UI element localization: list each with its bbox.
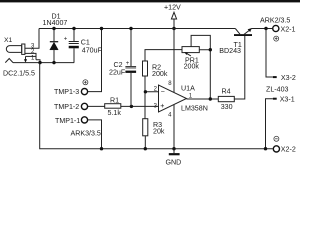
svg-text:+: + <box>64 36 68 42</box>
resistor R3 20k <box>143 119 165 136</box>
connector TMP1-3 <box>54 88 88 96</box>
wire R2 top to PR1 left <box>145 50 182 61</box>
wire PR1 wiper loop <box>191 35 210 49</box>
svg-text:X2-2: X2-2 <box>281 146 296 154</box>
wire R4 to T1 base <box>234 36 245 99</box>
potentiometer PR1 200k <box>182 47 199 71</box>
svg-text:470uF: 470uF <box>82 46 103 54</box>
svg-text:C1: C1 <box>81 39 90 47</box>
wire PR1 right to output node <box>199 50 210 99</box>
wire X1 pin1 to ground bus <box>36 60 40 63</box>
wire X1 switch contact <box>24 56 36 62</box>
connector X2-1 <box>273 25 296 33</box>
wire R2 bottom to pin2 and R3 <box>145 76 159 119</box>
resistor R2 200k <box>143 61 168 78</box>
op-amp U1A LM358N <box>154 81 208 119</box>
wire R3 bottom to ground bus <box>144 136 146 149</box>
transistor T1 BD243 <box>219 28 252 55</box>
connector X2-2 <box>273 146 296 154</box>
wire emitter to X2-1 <box>251 28 272 30</box>
wire left loop down <box>40 63 273 149</box>
svg-text:X2-1: X2-1 <box>281 25 296 33</box>
svg-text:TMP1-2: TMP1-2 <box>54 103 79 111</box>
resistor R1 5.1k <box>105 97 122 118</box>
wire X1 pin2 <box>25 53 36 59</box>
wire X1 pin3 to top rail <box>25 29 39 49</box>
terminal X3-1 <box>273 95 295 103</box>
svg-text:BD243: BD243 <box>219 47 241 55</box>
junction <box>38 61 41 64</box>
svg-text:330: 330 <box>221 103 233 111</box>
wire X3-1 down to ground bus <box>266 99 273 149</box>
svg-text:ZL-403: ZL-403 <box>266 85 289 93</box>
X1 jack barrel <box>6 46 21 53</box>
svg-text:22uF: 22uF <box>109 68 126 76</box>
node +12V <box>164 4 181 31</box>
wire R1 to opamp pin3 <box>121 105 159 107</box>
polarity mark minus at X2-2 <box>274 136 279 141</box>
capacitor C2 22uF <box>109 27 136 107</box>
svg-text:X1: X1 <box>4 37 13 44</box>
X1 jack collar <box>22 44 25 54</box>
wire opamp output <box>187 98 219 100</box>
polarity mark plus near TMP1-3 <box>83 80 88 85</box>
svg-text:ARK2/3.5: ARK2/3.5 <box>260 17 290 25</box>
svg-text:ARK3/3.5: ARK3/3.5 <box>71 130 101 138</box>
svg-text:200k: 200k <box>184 63 200 71</box>
svg-text:GND: GND <box>166 158 182 166</box>
wire X2-1 node down to X3-2 <box>266 29 273 78</box>
wire pin8 from top rail <box>173 29 175 93</box>
resistor R4 330 <box>218 87 234 111</box>
top border strip <box>0 0 300 2</box>
wire TMP1-3 to top rail <box>88 29 102 92</box>
ground GND <box>166 149 182 167</box>
diode D1 1N4007 <box>43 13 68 65</box>
svg-text:200k: 200k <box>152 70 168 78</box>
svg-text:20k: 20k <box>153 127 165 135</box>
svg-text:X3-1: X3-1 <box>280 95 295 103</box>
capacitor C1 470uF <box>64 27 103 63</box>
connector X1 DC2.1/5.5 <box>3 37 35 77</box>
polarity mark plus at X2-1 <box>274 36 279 41</box>
wire top rail <box>39 28 235 30</box>
svg-text:TMP1-3: TMP1-3 <box>54 88 79 96</box>
connector TMP1-1 <box>55 117 88 125</box>
connector TMP1-2 <box>54 103 88 111</box>
svg-text:DC2.1/5.5: DC2.1/5.5 <box>3 69 35 77</box>
wire TMP1-1 to ground bus <box>88 120 102 149</box>
svg-text:R4: R4 <box>222 87 231 95</box>
svg-text:1N4007: 1N4007 <box>43 19 68 27</box>
svg-text:+: + <box>126 61 130 67</box>
svg-text:+: + <box>160 102 164 110</box>
svg-text:LM358N: LM358N <box>181 105 208 113</box>
wire ground run to C1 <box>13 62 74 64</box>
svg-text:+12V: +12V <box>164 4 181 12</box>
terminal X3-2 <box>273 74 296 82</box>
svg-text:U1A: U1A <box>181 85 195 93</box>
wire TMP1-2 to R1 <box>88 105 105 107</box>
svg-text:5.1k: 5.1k <box>108 109 122 117</box>
svg-text:TMP1-1: TMP1-1 <box>55 117 80 125</box>
X1 plug tip symbol <box>5 59 13 63</box>
svg-text:X3-2: X3-2 <box>281 74 296 82</box>
svg-text:−: − <box>161 88 165 96</box>
wire pin4 to ground bus <box>173 105 175 149</box>
